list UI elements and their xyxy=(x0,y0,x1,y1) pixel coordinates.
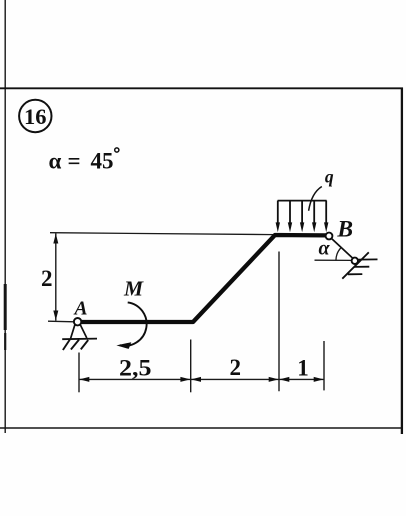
frame bottom rule xyxy=(0,427,401,429)
bottom dimension arrowheads xyxy=(79,377,323,382)
dimension 2 (height) extension line bottom xyxy=(48,320,75,323)
distributed load q arrows xyxy=(278,201,326,223)
roller support link B xyxy=(331,238,352,258)
svg-text:α: α xyxy=(318,238,330,260)
bottom dimension extension line at A xyxy=(78,353,80,393)
roller support inclined surface xyxy=(342,252,369,278)
svg-text:q: q xyxy=(325,166,334,186)
svg-text:B: B xyxy=(336,216,353,242)
svg-text:2: 2 xyxy=(41,266,53,291)
angle value alpha = 45deg xyxy=(49,148,119,174)
roller support angle reference line xyxy=(315,259,352,261)
svg-text:2: 2 xyxy=(229,355,241,380)
pin support A triangle xyxy=(62,325,97,340)
dimension 2 (height) dimension line xyxy=(53,233,58,320)
svg-text:2,5: 2,5 xyxy=(119,355,152,380)
svg-text:=: = xyxy=(68,149,81,174)
node B hinge circle xyxy=(326,233,333,240)
moment M curved arrow xyxy=(116,302,146,349)
angle alpha arc xyxy=(336,248,341,261)
svg-text:A: A xyxy=(72,299,87,320)
pin support A hatching xyxy=(63,340,88,350)
load label leader line xyxy=(309,187,322,211)
bottom dimension extension line at B xyxy=(323,341,325,390)
frame left rule xyxy=(4,0,6,433)
distributed load q top bar xyxy=(278,200,327,202)
roller support hatching xyxy=(348,259,378,274)
svg-text:1: 1 xyxy=(297,356,309,381)
svg-text:16: 16 xyxy=(24,104,47,129)
frame right rule xyxy=(401,88,403,435)
svg-text:α: α xyxy=(49,148,62,173)
svg-text:45: 45 xyxy=(91,148,114,173)
roller support roller circle xyxy=(352,258,358,264)
dimension 2 (height) extension line top xyxy=(50,233,274,235)
pin support A hinge circle xyxy=(74,318,81,325)
frame top rule xyxy=(0,87,403,89)
problem number badge 16 xyxy=(19,100,51,132)
beam (bent bar A to B) xyxy=(78,235,327,322)
bottom dimension extension line at bend xyxy=(190,340,192,393)
svg-text:M: M xyxy=(123,276,144,300)
bottom dimension line xyxy=(79,378,324,380)
bottom dimension extension line at load start xyxy=(278,252,280,392)
